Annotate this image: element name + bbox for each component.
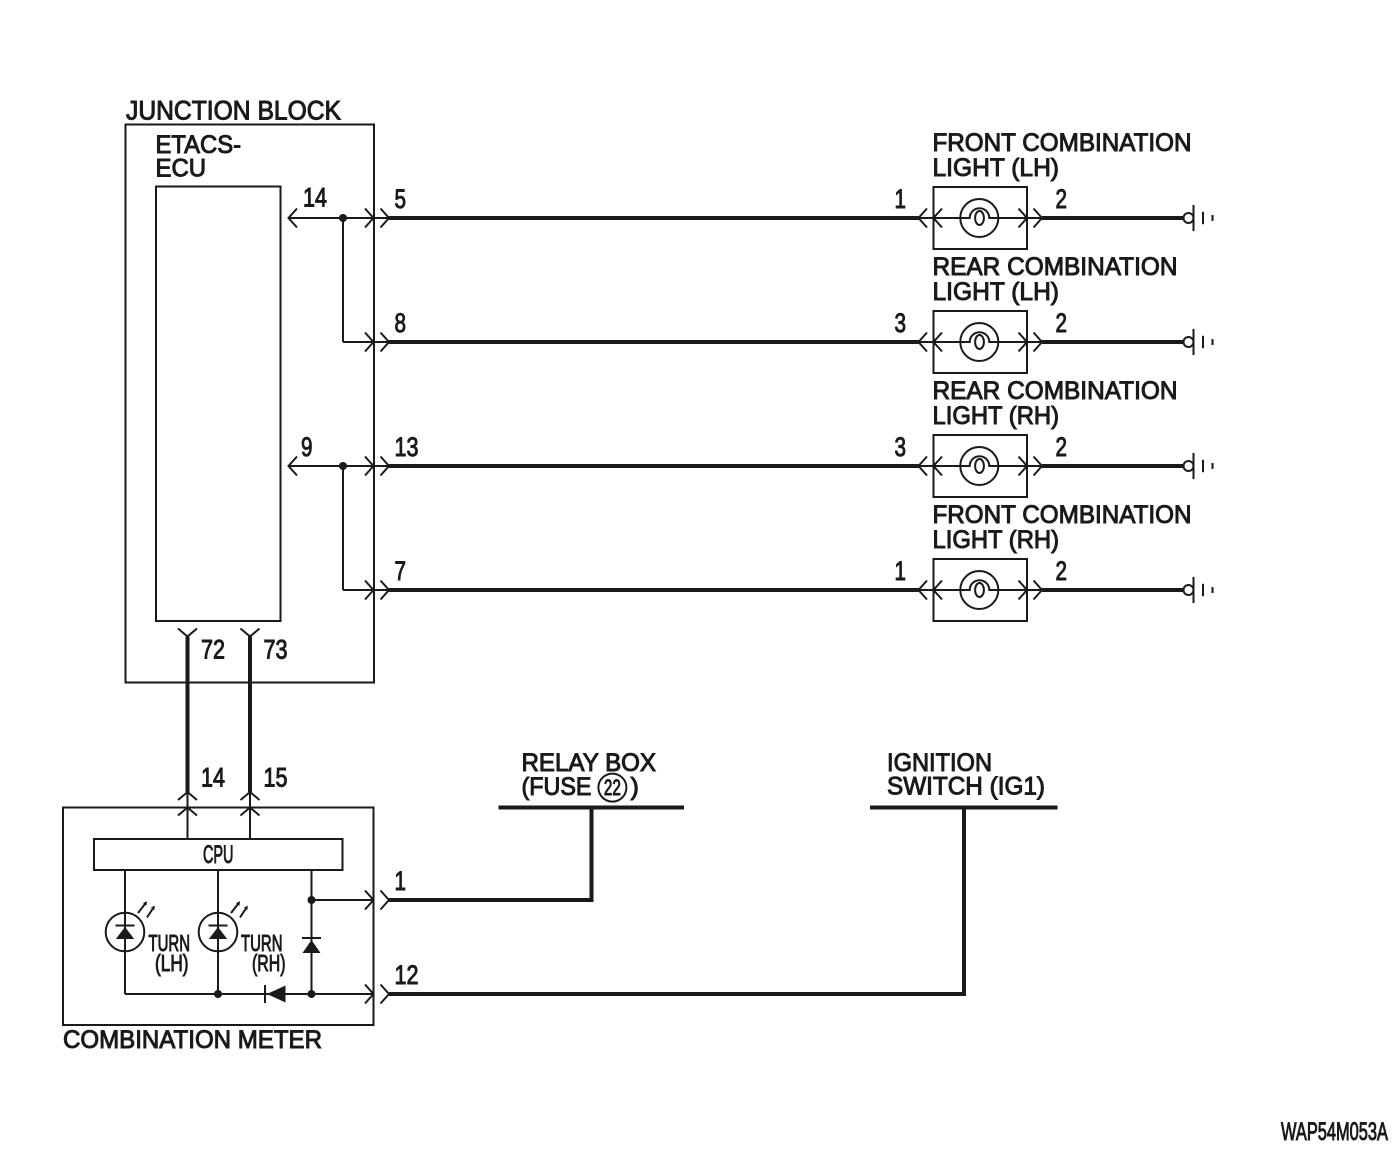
svg-text:JUNCTION BLOCK: JUNCTION BLOCK bbox=[126, 96, 341, 126]
svg-text:): ) bbox=[631, 773, 639, 801]
svg-text:SWITCH (IG1): SWITCH (IG1) bbox=[887, 773, 1045, 801]
svg-text:COMBINATION METER: COMBINATION METER bbox=[63, 1026, 322, 1054]
svg-text:REAR COMBINATION: REAR COMBINATION bbox=[933, 253, 1178, 281]
svg-text:9: 9 bbox=[301, 432, 313, 462]
svg-text:14: 14 bbox=[201, 763, 225, 793]
svg-text:72: 72 bbox=[201, 635, 225, 665]
svg-text:2: 2 bbox=[1056, 308, 1068, 338]
svg-text:FRONT COMBINATION: FRONT COMBINATION bbox=[933, 501, 1192, 529]
svg-text:3: 3 bbox=[895, 308, 907, 338]
svg-text:1: 1 bbox=[895, 556, 907, 586]
svg-text:1: 1 bbox=[895, 184, 907, 214]
svg-text:FRONT COMBINATION: FRONT COMBINATION bbox=[933, 129, 1192, 157]
svg-text:LIGHT (LH): LIGHT (LH) bbox=[933, 154, 1060, 182]
svg-text:ECU: ECU bbox=[156, 155, 207, 183]
svg-text:(RH): (RH) bbox=[252, 950, 286, 976]
svg-text:3: 3 bbox=[895, 432, 907, 462]
svg-text:14: 14 bbox=[303, 183, 327, 213]
svg-text:LIGHT (RH): LIGHT (RH) bbox=[933, 402, 1060, 430]
svg-text:1: 1 bbox=[395, 866, 407, 896]
svg-text:15: 15 bbox=[264, 763, 288, 793]
svg-text:REAR COMBINATION: REAR COMBINATION bbox=[933, 377, 1178, 405]
svg-text:WAP54M053A: WAP54M053A bbox=[1281, 1118, 1388, 1146]
svg-text:(LH): (LH) bbox=[155, 950, 189, 976]
svg-text:2: 2 bbox=[1056, 432, 1068, 462]
svg-text:73: 73 bbox=[264, 635, 288, 665]
svg-text:2: 2 bbox=[1056, 556, 1068, 586]
svg-text:LIGHT (RH): LIGHT (RH) bbox=[933, 526, 1060, 554]
svg-text:22: 22 bbox=[604, 775, 621, 800]
svg-text:LIGHT (LH): LIGHT (LH) bbox=[933, 278, 1060, 306]
svg-text:8: 8 bbox=[395, 308, 407, 338]
svg-text:2: 2 bbox=[1056, 184, 1068, 214]
svg-text:(FUSE: (FUSE bbox=[522, 773, 592, 801]
svg-text:5: 5 bbox=[395, 184, 407, 214]
svg-text:13: 13 bbox=[395, 432, 419, 462]
svg-text:12: 12 bbox=[395, 960, 419, 990]
svg-text:CPU: CPU bbox=[203, 841, 234, 869]
svg-text:7: 7 bbox=[395, 556, 407, 586]
